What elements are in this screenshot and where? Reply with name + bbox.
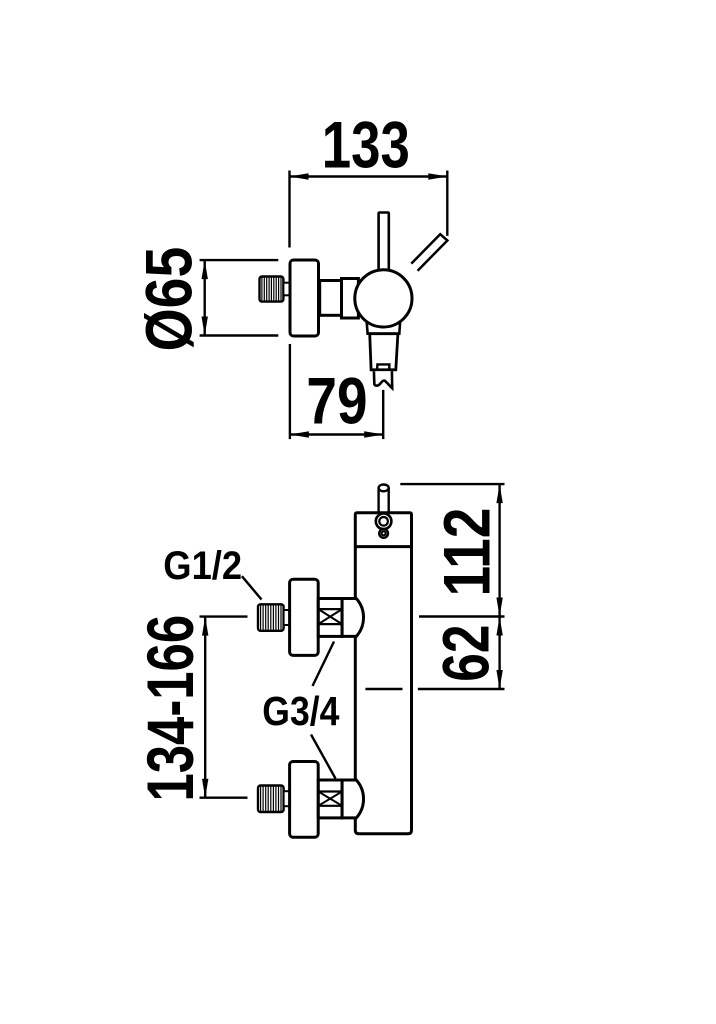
dimension 133 extension line right xyxy=(446,171,448,236)
svg-text:112: 112 xyxy=(429,508,503,597)
svg-text:62: 62 xyxy=(429,625,503,682)
dimension 134-166 extension bottom xyxy=(200,797,248,799)
nipple connector (top view) xyxy=(283,283,289,296)
top union nipple G1/2 xyxy=(258,604,284,631)
leader G3/4 up xyxy=(313,642,335,687)
leader G1/2 xyxy=(242,576,262,599)
diverter pull small inner xyxy=(382,531,386,535)
extension line top (handle top) xyxy=(400,483,504,485)
bottom union nut xyxy=(318,780,342,818)
svg-text:Ø65: Ø65 xyxy=(132,247,206,352)
bottom union connector xyxy=(284,791,290,806)
leader G3/4 down xyxy=(311,735,336,779)
valve housing (top view) xyxy=(342,279,359,319)
top union nut xyxy=(318,599,342,637)
dimension 79 extension line left xyxy=(289,344,291,439)
top union dome xyxy=(342,599,363,637)
bottom union nut cross xyxy=(318,792,342,806)
diverter pull small outer xyxy=(379,529,388,538)
top union connector xyxy=(284,610,290,625)
hose break (top view) xyxy=(374,371,392,388)
bottom union dome xyxy=(342,780,363,818)
dimension O65 line xyxy=(203,260,205,335)
wall flange (top view) xyxy=(290,260,319,336)
handle rod (top view) xyxy=(379,213,389,274)
dimension 112 line xyxy=(498,484,500,616)
svg-text:G1/2: G1/2 xyxy=(163,544,242,588)
outlet collar (top view) xyxy=(366,318,400,334)
svg-text:133: 133 xyxy=(322,108,410,182)
dimension 133 line xyxy=(290,175,448,177)
top union flange xyxy=(290,579,319,655)
svg-text:79: 79 xyxy=(306,364,367,438)
outlet axis mark inside body xyxy=(365,688,402,690)
top union nut cross xyxy=(318,609,342,624)
handle rod (front view) xyxy=(377,488,379,512)
extension line middle (union axis) xyxy=(419,615,505,617)
dimension 134-166 line xyxy=(204,617,206,798)
dimension 133 extension line left xyxy=(288,171,290,248)
outlet notch xyxy=(377,364,389,369)
dimension O65 extension line bottom xyxy=(200,334,279,336)
threaded nipple G1/2 (top view) xyxy=(260,277,284,302)
svg-text:134-166: 134-166 xyxy=(133,615,207,802)
dimension 79 line xyxy=(290,433,383,435)
bottom union flange xyxy=(290,762,319,838)
svg-text:G3/4: G3/4 xyxy=(262,688,339,734)
diverter knob inner xyxy=(379,517,388,526)
lever (open position) xyxy=(411,234,447,271)
dimension O65 extension line top xyxy=(200,259,279,261)
body cap line xyxy=(355,545,411,548)
mixer ball (top view) xyxy=(355,270,412,327)
dimension 62 line xyxy=(498,617,500,690)
dimension 134-166 extension top xyxy=(200,615,248,617)
diverter knob outer xyxy=(376,514,392,530)
outlet taper (top view) xyxy=(370,334,398,370)
body (front view) xyxy=(355,513,411,834)
dimension 79 extension line right xyxy=(382,390,384,439)
extension line bottom (outlet axis) xyxy=(418,688,505,690)
body tube (top view) xyxy=(320,281,342,316)
bottom union nipple G3/4 xyxy=(258,786,284,813)
